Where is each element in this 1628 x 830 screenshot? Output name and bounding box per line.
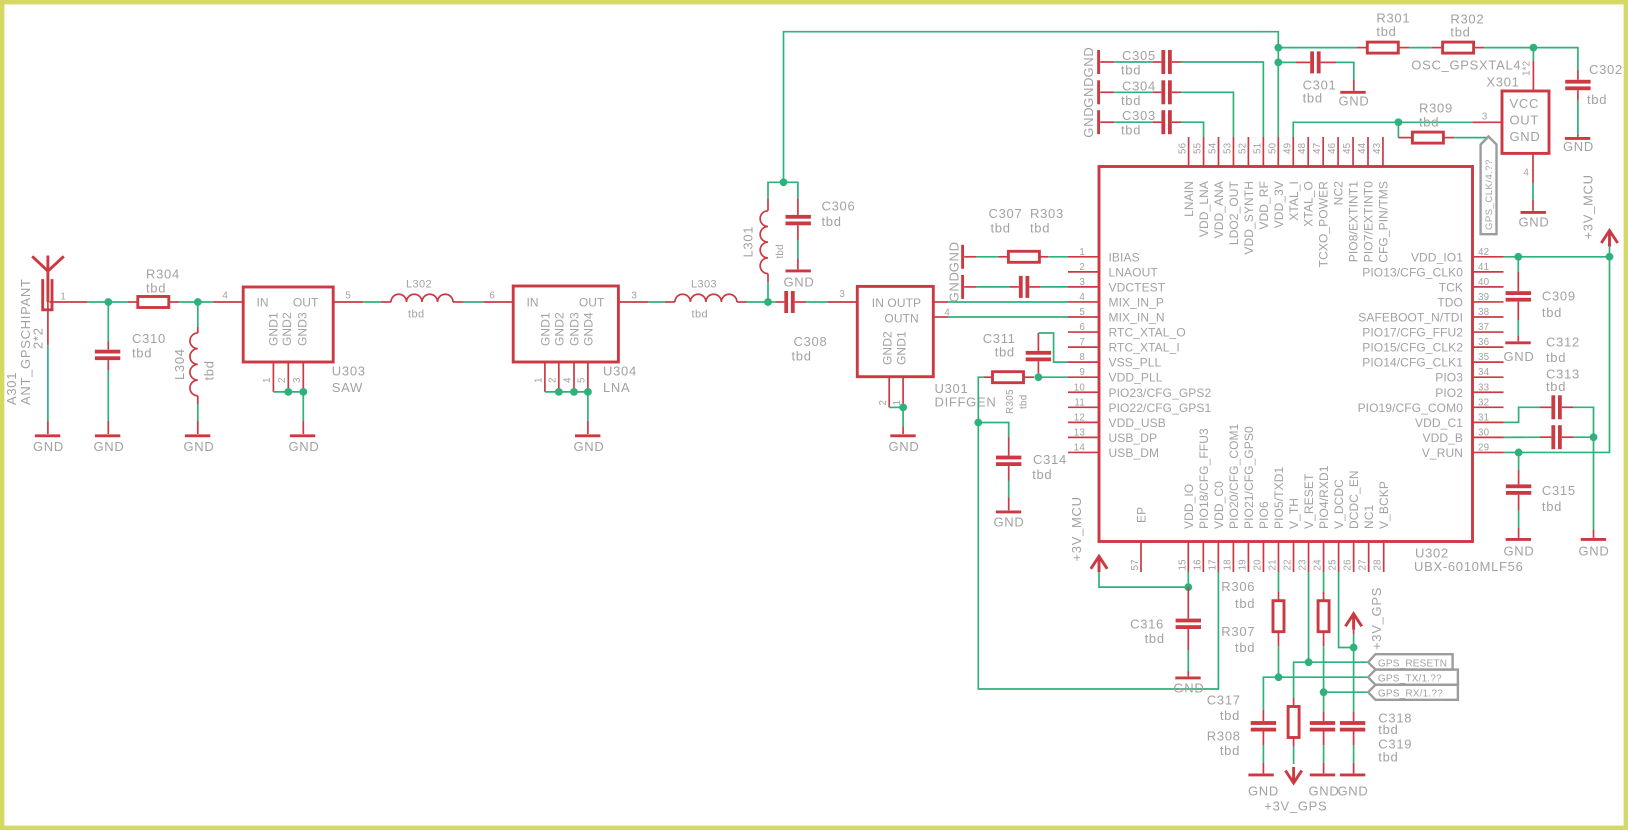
svg-text:R309: R309 (1419, 101, 1453, 116)
antenna A301 (32, 256, 64, 310)
pin 32 U302 PIO19/CFG_COM0 (1473, 406, 1504, 408)
svg-text:42: 42 (1478, 247, 1489, 258)
svg-text:V_RUN: V_RUN (1422, 446, 1463, 460)
wire U303 to ground (302, 392, 304, 421)
svg-text:USB_DP: USB_DP (1109, 431, 1158, 445)
svg-text:GND: GND (1081, 107, 1096, 138)
svg-text:GND: GND (574, 439, 605, 454)
pin 20 U302 PIO6 (1262, 542, 1264, 573)
svg-text:28: 28 (1373, 559, 1384, 571)
wire V_RUN node (1504, 451, 1519, 453)
resistor R308 (1293, 698, 1295, 707)
wire C319 to ground (1353, 745, 1355, 763)
svg-text:GND1: GND1 (894, 331, 908, 365)
svg-text:tbd: tbd (1018, 394, 1029, 409)
svg-text:38: 38 (1478, 307, 1490, 318)
pin 45 U302 PIO8/EXTINT1 (1352, 137, 1354, 167)
svg-text:C305: C305 (1122, 48, 1156, 63)
wire C311 to VSS_PLL (1038, 333, 1068, 362)
junction (1274, 44, 1282, 52)
inductor L303 (665, 301, 675, 303)
pin 31 U302 VDD_C1 (1473, 421, 1504, 423)
svg-text:1: 1 (262, 377, 273, 383)
svg-text:+3V_MCU: +3V_MCU (1581, 174, 1596, 239)
wire C308 to U301 (806, 301, 827, 303)
wire R303 to IBIAS (1048, 256, 1068, 258)
wire C304 to pin (1181, 92, 1233, 137)
svg-text:GND: GND (784, 275, 815, 290)
svg-text:GND: GND (1081, 77, 1096, 108)
svg-text:PIO13/CFG_CLK0: PIO13/CFG_CLK0 (1362, 265, 1463, 279)
wire antenna to ground (47, 345, 49, 421)
pin 10 U302 PIO23/CFG_GPS2 (1068, 391, 1099, 393)
svg-text:45: 45 (1342, 142, 1353, 154)
svg-text:tbd: tbd (146, 281, 166, 296)
svg-text:GND: GND (1339, 94, 1370, 109)
svg-text:40: 40 (1478, 277, 1490, 288)
svg-text:LDO2_OUT: LDO2_OUT (1227, 180, 1241, 245)
svg-text:41: 41 (1478, 262, 1489, 273)
svg-text:L304: L304 (172, 348, 187, 380)
pin 24 U302 PIO4/RXD1 (1323, 542, 1325, 573)
wire R302 to X301 node (1484, 47, 1533, 49)
svg-text:GND: GND (1504, 544, 1535, 559)
svg-text:GPS_RESETN: GPS_RESETN (1378, 659, 1447, 670)
svg-text:GND: GND (947, 271, 962, 302)
ground under C310 (107, 421, 109, 434)
svg-text:VDD_C1: VDD_C1 (1415, 416, 1463, 430)
pin 26 U302 DCDC_EN (1353, 542, 1355, 573)
ground under C301 (1353, 80, 1355, 91)
pin 3 U303 (302, 362, 304, 389)
svg-text:PIO23/CFG_GPS2: PIO23/CFG_GPS2 (1109, 386, 1212, 400)
svg-text:57: 57 (1130, 559, 1141, 570)
svg-text:PIO5/TXD1: PIO5/TXD1 (1272, 467, 1286, 529)
pin 4 X301 (1532, 153, 1534, 183)
svg-text:43: 43 (1372, 142, 1383, 154)
svg-text:TDO: TDO (1437, 295, 1463, 309)
svg-text:12: 12 (1074, 412, 1085, 423)
svg-text:DCDC_EN: DCDC_EN (1347, 470, 1361, 529)
svg-text:1: 1 (1079, 247, 1085, 258)
svg-text:tbd: tbd (1220, 708, 1240, 723)
svg-text:1*2: 1*2 (1522, 61, 1533, 76)
resistor R302 (1432, 47, 1443, 49)
svg-text:OSC_GPSXTAL4: OSC_GPSXTAL4 (1411, 58, 1521, 73)
wire C302 to ground (1577, 100, 1579, 135)
wire X301 pin4 to ground (1532, 183, 1534, 199)
svg-text:PIO17/CFG_FFU2: PIO17/CFG_FFU2 (1362, 326, 1463, 340)
capacitor C301 (1278, 61, 1296, 63)
wire U303 to L302 (363, 301, 381, 303)
svg-text:5: 5 (345, 291, 351, 302)
pin 17 U302 VDD_C0 (1217, 542, 1219, 573)
svg-text:GND: GND (1248, 784, 1279, 799)
svg-text:PIO2: PIO2 (1435, 386, 1463, 400)
pin 33 U302 PIO2 (1473, 391, 1504, 393)
svg-text:OUT: OUT (579, 296, 605, 310)
svg-text:39: 39 (1478, 292, 1489, 303)
svg-text:GND4: GND4 (581, 312, 595, 346)
svg-text:IN OUTP: IN OUTP (872, 296, 921, 310)
svg-text:50: 50 (1267, 142, 1278, 154)
svg-text:GND: GND (1563, 139, 1594, 154)
svg-text:33: 33 (1478, 382, 1490, 393)
pin 34 U302 PIO3 (1473, 376, 1504, 378)
svg-text:GND: GND (1519, 215, 1550, 230)
svg-text:19: 19 (1237, 559, 1248, 570)
svg-text:4: 4 (222, 291, 228, 302)
wire R309 to GPS_CLK flag (1454, 137, 1487, 139)
capacitor C304 (1114, 91, 1152, 93)
pin 53 U302 LDO2_OUT (1232, 137, 1234, 167)
svg-text:GPS_CLK/4.??: GPS_CLK/4.?? (1484, 159, 1495, 230)
ground under U301 (902, 427, 904, 434)
svg-text:GND: GND (1081, 47, 1096, 78)
capacitor C316 (1187, 587, 1189, 619)
diffgen U301 (857, 286, 933, 376)
wire C305 to pin (1181, 62, 1263, 137)
svg-text:22: 22 (1283, 559, 1294, 570)
junction (899, 404, 907, 412)
svg-text:PIO14/CFG_CLK1: PIO14/CFG_CLK1 (1362, 356, 1463, 370)
svg-text:OUT: OUT (1510, 113, 1540, 128)
svg-text:29: 29 (1478, 442, 1489, 453)
pin 9 U302 VDD_PLL (1068, 376, 1099, 378)
net flag GPS_RX/1.?? (1324, 691, 1368, 693)
wire U304 to L303 (648, 301, 665, 303)
svg-text:11: 11 (1074, 397, 1085, 408)
svg-text:tbd: tbd (792, 349, 812, 364)
ground under L304 (197, 421, 199, 434)
svg-text:tbd: tbd (1030, 221, 1050, 236)
svg-text:32: 32 (1478, 397, 1489, 408)
svg-text:LNA: LNA (603, 380, 630, 395)
pin 4 U302 MIX_IN_P (1068, 301, 1099, 303)
wire U303 ground pins (273, 391, 303, 393)
svg-text:34: 34 (1478, 367, 1490, 378)
svg-text:2: 2 (1079, 262, 1085, 273)
svg-text:8: 8 (1079, 352, 1085, 363)
svg-text:USB_DM: USB_DM (1109, 446, 1160, 460)
pin 2 U303 (287, 362, 289, 389)
svg-text:VDCTEST: VDCTEST (1109, 280, 1166, 294)
pin 35 U302 PIO14/CFG_CLK1 (1473, 361, 1504, 363)
svg-text:31: 31 (1478, 412, 1489, 423)
junction (194, 298, 202, 306)
svg-text:tbd: tbd (1303, 91, 1323, 106)
svg-text:7: 7 (1079, 337, 1085, 348)
pin 43 U302 CFG_PIN/TMS (1382, 137, 1384, 167)
junction (1590, 433, 1598, 441)
svg-text:R307: R307 (1221, 624, 1255, 639)
svg-text:16: 16 (1192, 559, 1203, 571)
svg-text:23: 23 (1298, 559, 1309, 571)
svg-text:tbd: tbd (1450, 25, 1470, 40)
pin 37 U302 PIO17/CFG_FFU2 (1473, 331, 1504, 333)
junction (780, 178, 788, 186)
svg-text:37: 37 (1478, 322, 1489, 333)
inductor L304 (197, 302, 199, 327)
svg-text:tbd: tbd (1220, 743, 1240, 758)
pin 27 U302 NC1 (1368, 542, 1370, 573)
svg-text:52: 52 (1237, 143, 1248, 154)
junction (1305, 658, 1313, 666)
supply +3V_MCU right (1609, 243, 1611, 257)
svg-text:15: 15 (1177, 559, 1188, 571)
svg-text:tbd: tbd (1145, 631, 1165, 646)
resistor R309 (1398, 137, 1412, 139)
wire R306 to GPS_TX node (1277, 646, 1279, 677)
wire C309 to ground (1517, 320, 1519, 336)
pin 5 U304 (587, 362, 589, 389)
svg-text:TCK: TCK (1439, 280, 1463, 294)
svg-text:TCXO_POWER: TCXO_POWER (1317, 181, 1331, 268)
pin 36 U302 PIO15/CFG_CLK2 (1473, 346, 1504, 348)
capacitor C305 (1114, 61, 1152, 63)
svg-text:GND: GND (33, 439, 64, 454)
pin 56 U302 LNAIN (1188, 137, 1190, 167)
ground under U304 (587, 421, 589, 434)
pin 15 U302 VDD_IO (1187, 542, 1189, 573)
ground under C319 (1353, 763, 1355, 773)
wire V_DCDC to +3V_GPS (1339, 572, 1354, 648)
svg-text:RTC_XTAL_I: RTC_XTAL_I (1109, 341, 1180, 355)
svg-text:GND: GND (994, 515, 1025, 530)
ground under X301 (1532, 200, 1534, 211)
svg-text:PIO6: PIO6 (1257, 501, 1271, 529)
svg-text:46: 46 (1327, 142, 1338, 154)
junction (1395, 118, 1403, 126)
svg-text:A301: A301 (4, 372, 19, 405)
svg-text:1: 1 (60, 292, 66, 303)
pin 19 U302 PIO21/CFG_GPS0 (1247, 542, 1249, 573)
resistor R305 (984, 376, 993, 378)
svg-text:VDD_USB: VDD_USB (1109, 416, 1166, 430)
svg-text:PIO3: PIO3 (1435, 371, 1463, 385)
svg-text:GPS_TX/1.??: GPS_TX/1.?? (1378, 674, 1442, 685)
svg-text:PIO7/EXTINT0: PIO7/EXTINT0 (1362, 181, 1376, 262)
svg-text:tbd: tbd (1235, 596, 1255, 611)
svg-text:51: 51 (1252, 143, 1263, 154)
svg-text:55: 55 (1193, 142, 1204, 154)
capacitor C312 (1504, 407, 1541, 422)
resistor R307 (1323, 572, 1325, 592)
capacitor C315 (1518, 452, 1520, 470)
junction (1350, 644, 1358, 652)
pin 57 U302 EP (1140, 542, 1142, 573)
pin 42 U302 VDD_IO1 (1473, 256, 1504, 258)
svg-text:tbd: tbd (1542, 499, 1562, 514)
resistor R303 (977, 256, 999, 258)
svg-text:tbd: tbd (1378, 722, 1398, 737)
svg-text:C303: C303 (1122, 108, 1156, 123)
pin 14 U302 USB_DM (1068, 451, 1099, 453)
svg-text:VDD_PLL: VDD_PLL (1109, 371, 1163, 385)
svg-text:26: 26 (1343, 559, 1354, 571)
pin 39 U302 TDO (1473, 301, 1504, 303)
svg-text:3: 3 (1482, 112, 1488, 123)
svg-text:GND2: GND2 (881, 331, 895, 365)
wire +3V_GPS to C319 (1353, 648, 1355, 713)
svg-text:V_RESET: V_RESET (1302, 473, 1316, 529)
svg-text:PIO19/CFG_COM0: PIO19/CFG_COM0 (1358, 401, 1464, 415)
pin 52 U302 VDD_SYNTH (1247, 137, 1249, 167)
capacitor C302 (1577, 70, 1579, 80)
wire C315 to ground (1518, 510, 1520, 528)
pin 7 U302 RTC_XTAL_I (1068, 346, 1099, 348)
svg-text:OUTN: OUTN (884, 311, 918, 325)
junction (555, 388, 563, 396)
svg-text:X301: X301 (1486, 75, 1519, 90)
pin 38 U302 SAFEBOOT_N/TDI (1473, 316, 1504, 318)
svg-text:VCC: VCC (1510, 96, 1540, 111)
svg-text:5: 5 (577, 377, 588, 383)
wire to C302 (1533, 48, 1578, 70)
svg-text:GND: GND (184, 439, 215, 454)
wire C306 to ground (797, 240, 799, 258)
wire C314 to ground (1008, 481, 1010, 498)
svg-text:tbd: tbd (1546, 350, 1566, 365)
svg-text:GND: GND (889, 439, 920, 454)
svg-text:PIO21/CFG_GPS0: PIO21/CFG_GPS0 (1242, 426, 1256, 529)
pin OUTP U301 (933, 301, 948, 303)
svg-text:47: 47 (1312, 143, 1323, 154)
svg-text:R303: R303 (1030, 206, 1064, 221)
wire L301 to RF node (767, 282, 769, 302)
wire VDD_RF bias net top (784, 32, 1279, 183)
junction (1184, 583, 1192, 591)
pin 51 U302 VDD_RF (1262, 137, 1264, 167)
pin 46 U302 NC2 (1337, 137, 1339, 167)
svg-text:+3V_MCU: +3V_MCU (1069, 496, 1084, 561)
svg-text:GND: GND (1309, 784, 1340, 799)
svg-text:+3V_GPS: +3V_GPS (1369, 587, 1384, 650)
svg-text:24: 24 (1313, 559, 1324, 571)
pin 8 U302 VSS_PLL (1068, 361, 1099, 363)
junction (1530, 44, 1538, 52)
ground under antenna (47, 421, 49, 434)
junction (1274, 59, 1282, 67)
wire +3V_MCU down right edge (1519, 257, 1610, 453)
svg-text:53: 53 (1222, 142, 1233, 154)
junction node VDD_PLL (1035, 373, 1043, 381)
svg-text:3: 3 (631, 291, 637, 302)
pin 4 U304 (573, 362, 575, 389)
svg-text:VDD_3V: VDD_3V (1272, 181, 1286, 228)
svg-text:2: 2 (548, 377, 559, 383)
LNA U304 (513, 286, 618, 362)
pin 49 U302 XTAL_I (1292, 137, 1294, 167)
svg-text:C309: C309 (1542, 289, 1576, 304)
pin 23 U302 V_RESET (1308, 542, 1310, 573)
net flag GPS_TX/1.?? (1279, 676, 1369, 678)
wire R301 to R302 (1409, 47, 1432, 49)
wire C313 to riser (1573, 436, 1594, 438)
svg-text:tbd: tbd (1419, 115, 1439, 130)
wire R304 to L304 node (179, 301, 213, 303)
svg-text:C304: C304 (1122, 78, 1156, 93)
pin 44 U302 PIO7/EXTINT0 (1367, 137, 1369, 167)
wire U304 to ground (587, 392, 589, 421)
svg-text:tbd: tbd (1542, 305, 1562, 320)
svg-text:R308: R308 (1207, 729, 1241, 744)
svg-text:U303: U303 (332, 364, 366, 379)
svg-text:5: 5 (1079, 307, 1085, 318)
svg-text:LNAIN: LNAIN (1182, 181, 1196, 217)
svg-text:VDD_IO: VDD_IO (1182, 484, 1196, 529)
wire C303 to pin (1181, 122, 1204, 137)
svg-text:XTAL_O: XTAL_O (1302, 181, 1316, 227)
svg-text:C317: C317 (1207, 693, 1241, 708)
svg-text:C310: C310 (132, 331, 166, 346)
wire R305 to VDD_PLL pin (1038, 376, 1068, 378)
svg-text:18: 18 (1222, 559, 1233, 571)
capacitor C313 (1504, 436, 1541, 438)
pin 41 U302 PIO13/CFG_CLK0 (1473, 271, 1504, 273)
svg-text:tbd: tbd (1587, 92, 1607, 107)
svg-text:21: 21 (1267, 559, 1278, 570)
svg-text:25: 25 (1328, 559, 1339, 571)
svg-text:V_BCKP: V_BCKP (1377, 481, 1391, 529)
svg-text:9: 9 (1079, 367, 1085, 378)
resistor R301 (1357, 47, 1367, 49)
svg-text:tbd: tbd (1121, 123, 1141, 138)
svg-text:tbd: tbd (132, 346, 152, 361)
svg-text:C316: C316 (1130, 617, 1164, 632)
ground left of C305 (1097, 50, 1100, 74)
wire XTAL_I to X301 OUT (1293, 122, 1472, 137)
wire U301 ground pins (889, 406, 903, 408)
ground under C314 (1008, 498, 1010, 511)
junction (284, 388, 292, 396)
pin 6 U302 RTC_XTAL_O (1068, 331, 1099, 333)
capacitor C310 (107, 342, 109, 350)
wire RESETN to R308 (1294, 662, 1309, 698)
wire to C310 (107, 302, 109, 342)
ground left of C304 (1097, 80, 1100, 104)
SAW filter U303 (243, 287, 333, 362)
svg-text:OUT: OUT (293, 296, 319, 310)
svg-text:14: 14 (1074, 442, 1086, 453)
svg-text:GND: GND (1504, 349, 1535, 364)
capacitor C317 (1262, 710, 1264, 721)
svg-text:2: 2 (277, 377, 288, 383)
svg-text:GND1: GND1 (538, 312, 552, 346)
svg-text:C308: C308 (794, 334, 828, 349)
pin 25 U302 V_DCDC (1338, 542, 1340, 573)
junction (570, 388, 578, 396)
junction (1320, 688, 1328, 696)
wire R307 to GPS_RX node (1323, 646, 1325, 692)
svg-text:C315: C315 (1542, 483, 1576, 498)
svg-text:2*2: 2*2 (31, 327, 46, 349)
svg-text:13: 13 (1074, 427, 1086, 438)
svg-text:PIO22/CFG_GPS1: PIO22/CFG_GPS1 (1109, 401, 1212, 415)
svg-text:tbd: tbd (408, 309, 425, 321)
wire C316 to ground (1187, 650, 1189, 671)
svg-text:4: 4 (1079, 292, 1085, 303)
svg-text:17: 17 (1207, 559, 1218, 570)
pin 30 U302 VDD_B (1473, 436, 1504, 438)
svg-text:36: 36 (1478, 337, 1490, 348)
svg-text:48: 48 (1297, 142, 1308, 154)
svg-text:35: 35 (1478, 352, 1490, 363)
pin 54 U302 VDD_ANA (1218, 137, 1220, 167)
junction (584, 388, 592, 396)
junction (104, 298, 112, 306)
IC U302 body (1099, 167, 1473, 542)
